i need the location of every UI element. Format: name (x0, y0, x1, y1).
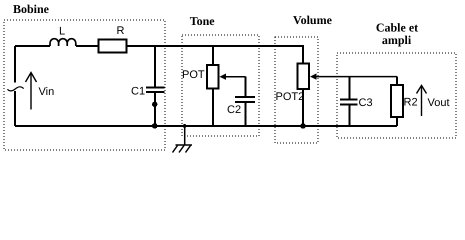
svg-text:Vin: Vin (39, 86, 55, 98)
Cable et ampli section dashed box (337, 53, 456, 138)
wire: wiper to C2 (245, 77, 247, 97)
svg-text:ampli: ampli (382, 33, 412, 47)
wire: bottom horizontal (15, 125, 397, 127)
wire: R2 bottom stub (396, 117, 398, 126)
svg-text:C3: C3 (359, 97, 373, 109)
wire: POT branch top (212, 46, 214, 65)
node: C1 junction dot (152, 102, 157, 107)
inductor L (50, 39, 76, 46)
potentiometer POT (207, 65, 219, 89)
node: C1 bottom wire dot (152, 123, 158, 129)
capacitor C2 (235, 96, 255, 98)
wire: left vertical upper (14, 46, 16, 83)
wire: left vertical lower (14, 91, 16, 126)
Volume section dashed box (275, 37, 318, 143)
Vin arrow (26, 73, 37, 110)
wire: C1 branch bottom (154, 93, 156, 127)
svg-text:Volume: Volume (293, 13, 333, 27)
wire: top horizontal from R to Volume corner (127, 45, 305, 47)
ground (173, 126, 193, 153)
resistor R (99, 40, 127, 53)
Tone section dashed box (182, 35, 259, 136)
POT2 wiper arrow (310, 73, 397, 79)
wire: between L and R (76, 45, 98, 47)
POT wiper arrow (220, 74, 246, 80)
resistor R2 (391, 85, 403, 117)
wire: C1 branch top (154, 46, 156, 87)
svg-text:R2: R2 (404, 97, 418, 109)
wire: POT branch bottom (212, 89, 214, 127)
capacitor C1 (146, 87, 165, 89)
wire: POT2 branch bottom (302, 89, 304, 126)
svg-text:POT: POT (182, 69, 205, 81)
wire: top horizontal left segment (15, 45, 50, 47)
source tilde symbol (8, 87, 24, 91)
svg-text:R: R (117, 25, 125, 37)
capacitor C3 (340, 99, 358, 101)
node: POT2 bottom junction dot (300, 123, 306, 129)
svg-text:Bobine: Bobine (13, 2, 50, 16)
svg-text:Vout: Vout (428, 97, 450, 109)
svg-text:POT2: POT2 (276, 91, 305, 103)
wire: C3 branch top (349, 77, 351, 99)
wire: POT2 branch top (302, 46, 304, 64)
svg-text:Tone: Tone (190, 14, 216, 28)
wire: C2 to bottom (245, 102, 247, 126)
wire: wiper line down to R2 (396, 77, 398, 85)
Bobine section dashed box (4, 20, 165, 150)
potentiometer POT2 (298, 64, 310, 90)
svg-text:L: L (59, 26, 65, 38)
node: ground junction dot (183, 124, 187, 128)
svg-text:C1: C1 (131, 86, 145, 98)
svg-text:C2: C2 (227, 104, 241, 116)
Vout arrow (417, 86, 427, 117)
wire: C3 to bottom (349, 105, 351, 126)
